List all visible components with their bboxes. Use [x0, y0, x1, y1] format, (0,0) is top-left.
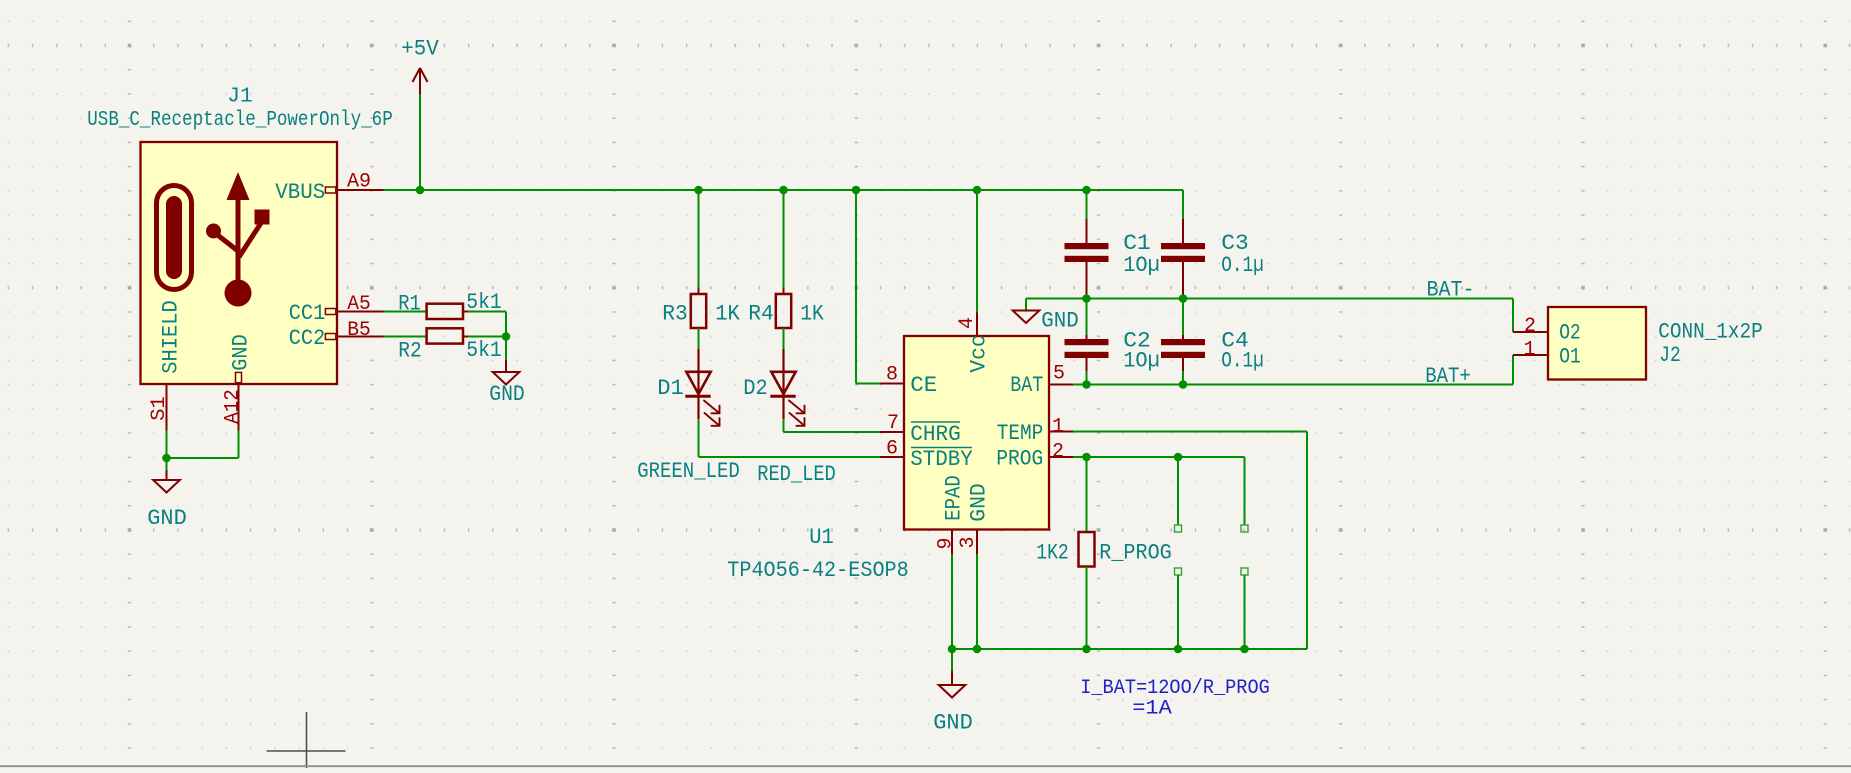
svg-text:J1: J1	[227, 85, 253, 108]
pin GND A12	[236, 372, 242, 382]
svg-text:GREEN_LED: GREEN_LED	[637, 459, 740, 484]
svg-text:RED_LED: RED_LED	[757, 462, 836, 487]
junction VBUS/R4	[779, 186, 788, 195]
svg-text:O.1µ: O.1µ	[1221, 253, 1264, 278]
junction stubA/GND bus	[1174, 645, 1183, 654]
wire VBUS to R4	[783, 190, 785, 288]
pin STDBY 6	[880, 456, 904, 458]
resistor R1 5k1	[427, 304, 463, 319]
connector J1 USB_C_Receptacle_PowerOnly_6P	[141, 142, 338, 384]
pin EPAD 9	[951, 530, 953, 555]
wire VBUS to R3	[698, 190, 700, 288]
svg-text:6: 6	[886, 438, 898, 461]
junction C1/GND	[1082, 294, 1091, 303]
svg-text:B5: B5	[347, 319, 371, 342]
svg-text:A5: A5	[347, 293, 371, 316]
resistor R4 1K	[776, 294, 791, 328]
wire VBUS bus	[384, 189, 1184, 191]
junction VBUS/R3	[694, 186, 703, 195]
svg-text:PROG: PROG	[996, 446, 1043, 471]
resistor R_PROG 1K2	[1086, 457, 1088, 532]
svg-text:CONN_1x2P: CONN_1x2P	[1658, 320, 1763, 345]
pin TEMP 1	[1049, 431, 1073, 433]
capacitor C3 0.1u	[1182, 190, 1184, 219]
svg-text:1: 1	[1052, 416, 1064, 439]
junction GND3/GND bus	[973, 645, 982, 654]
junction C3/GND	[1179, 294, 1188, 303]
wire CC2 to R2	[384, 336, 427, 338]
pin CHRG 7	[880, 431, 904, 433]
wire +5V to VBUS	[419, 94, 421, 190]
svg-text:S1: S1	[148, 396, 171, 421]
pin CE 8	[880, 383, 904, 385]
svg-text:TEMP: TEMP	[997, 421, 1044, 446]
wire GND bus bottom	[952, 648, 1307, 650]
resistor R3 1K	[691, 294, 706, 328]
wire TEMP to bottom	[1073, 431, 1307, 433]
wire GND net BAT-	[1026, 298, 1513, 300]
wire R1 to node	[468, 311, 506, 313]
svg-text:O2: O2	[1559, 320, 1581, 345]
svg-text:USB_C_Receptacle_PowerOnly_6P: USB_C_Receptacle_PowerOnly_6P	[87, 109, 393, 132]
wire BAT+ to J2 pin1	[1512, 355, 1514, 385]
wire S1 down	[166, 431, 168, 459]
svg-text:GND: GND	[933, 710, 973, 735]
led D1	[697, 349, 699, 396]
svg-text:STDBY: STDBY	[910, 447, 973, 472]
ground GND below R1/R2	[505, 337, 507, 361]
svg-text:CHRG: CHRG	[910, 422, 961, 447]
svg-text:J2: J2	[1659, 343, 1681, 368]
svg-text:D2: D2	[743, 376, 768, 401]
svg-text:1K: 1K	[715, 301, 740, 326]
junction S1/A12	[162, 454, 171, 463]
svg-text:A9: A9	[347, 171, 371, 194]
svg-text:I_BAT=12OO/R_PROG: I_BAT=12OO/R_PROG	[1080, 677, 1270, 700]
svg-text:R1: R1	[398, 291, 421, 316]
pin VBUS A9	[325, 187, 335, 193]
wire A12 to S1	[167, 457, 239, 459]
svg-text:O.1µ: O.1µ	[1221, 348, 1264, 373]
svg-text:5: 5	[1053, 363, 1065, 386]
ground GND below U1	[951, 649, 953, 671]
svg-text:GND: GND	[489, 382, 525, 407]
wire BAT- to J2 pin2	[1512, 299, 1514, 333]
no-connect stub B lower	[1241, 568, 1248, 575]
pin SHIELD S1	[166, 384, 168, 431]
svg-text:BAT-: BAT-	[1427, 277, 1475, 302]
resistor R2 5k1	[427, 328, 463, 343]
svg-text:1Oµ: 1Oµ	[1123, 348, 1160, 373]
wire VBUS to CE	[855, 190, 857, 384]
svg-text:VBUS: VBUS	[275, 180, 325, 205]
pin 1 / 01	[1513, 354, 1548, 356]
svg-text:A12: A12	[222, 389, 245, 424]
pin GND 3	[976, 530, 978, 555]
svg-text:D1: D1	[657, 376, 684, 401]
svg-text:1K: 1K	[800, 301, 824, 326]
svg-text:SHIELD: SHIELD	[159, 300, 184, 374]
junction +5V/VBUS	[416, 186, 425, 195]
svg-text:9: 9	[935, 537, 958, 549]
junction PROG/stub1	[1174, 453, 1183, 462]
wire R4 to D2	[783, 328, 785, 349]
pin BAT 5	[1049, 384, 1073, 386]
svg-text:2: 2	[1524, 315, 1536, 338]
svg-text:4: 4	[956, 317, 979, 329]
svg-text:CE: CE	[910, 373, 937, 398]
no-connect stub A lower	[1175, 568, 1182, 575]
svg-text:GND: GND	[147, 506, 187, 531]
capacitor C2 10u	[1086, 299, 1088, 336]
led D2	[782, 349, 784, 396]
junction VBUS/C1	[1082, 186, 1091, 195]
wire PROG bus	[1073, 456, 1245, 458]
pin CC1 A5	[325, 309, 335, 315]
svg-text:U1: U1	[809, 525, 834, 550]
no-connect stub B upper	[1244, 457, 1246, 525]
svg-text:3: 3	[957, 536, 980, 548]
wire R_PROG to GND bus	[1086, 567, 1088, 650]
capacitor C4 0.1u	[1182, 299, 1184, 336]
ground GND below J1	[166, 458, 168, 470]
svg-text:CC1: CC1	[289, 301, 326, 326]
wire D2 to CHRG	[783, 420, 785, 432]
USB-C plug symbol	[157, 186, 192, 290]
svg-text:GND: GND	[967, 483, 992, 522]
svg-text:+5V: +5V	[401, 36, 439, 61]
capacitor C1 10u	[1086, 190, 1088, 219]
svg-text:BAT+: BAT+	[1425, 364, 1471, 389]
no-connect stub A upper	[1177, 457, 1179, 525]
svg-text:R4: R4	[748, 301, 774, 326]
wire R1 node down	[505, 312, 507, 337]
pin PROG 2	[1049, 456, 1073, 458]
svg-text:5k1: 5k1	[466, 338, 502, 363]
svg-text:EPAD: EPAD	[942, 475, 967, 521]
junction C4/BAT	[1179, 380, 1188, 389]
wire BAT net BAT+	[1073, 384, 1513, 386]
wire EPAD down	[951, 554, 953, 649]
junction PROG/R_PROG	[1082, 453, 1091, 462]
svg-text:1: 1	[1523, 339, 1535, 362]
wire R2 to node	[468, 336, 506, 338]
wire R3 to D1	[698, 328, 700, 349]
connector J2 CONN_1x2P	[1548, 307, 1646, 380]
svg-text:CC2: CC2	[289, 326, 326, 351]
wire GND3 down	[976, 554, 978, 649]
svg-text:R_PROG: R_PROG	[1099, 540, 1172, 565]
junction R_PROG/GND bus	[1082, 645, 1091, 654]
svg-text:BAT: BAT	[1010, 373, 1043, 398]
junction VBUS/CE	[852, 186, 861, 195]
junction C2/BAT	[1082, 380, 1091, 389]
ground GND near Vcc	[1025, 299, 1027, 310]
pin 2 / 02	[1513, 331, 1548, 333]
cursor crosshair	[306, 712, 308, 768]
pin Vcc 4	[976, 313, 978, 337]
pin CC2 B5	[325, 334, 335, 340]
svg-text:Vcc: Vcc	[967, 334, 992, 373]
wire VBUS to Vcc	[976, 190, 978, 313]
svg-text:8: 8	[886, 364, 898, 387]
svg-text:=1A: =1A	[1132, 697, 1172, 720]
svg-text:TP4O56-42-ESOP8: TP4O56-42-ESOP8	[727, 558, 909, 583]
svg-text:1Oµ: 1Oµ	[1123, 253, 1160, 278]
junction stubB/GND bus	[1240, 645, 1249, 654]
svg-text:O1: O1	[1559, 344, 1581, 369]
junction R1/R2	[502, 332, 511, 341]
wire A12 down	[238, 431, 240, 459]
svg-text:2: 2	[1052, 441, 1064, 464]
wire CC1 to R1	[384, 311, 427, 313]
svg-text:GND: GND	[1041, 308, 1079, 333]
svg-text:R3: R3	[662, 301, 688, 326]
svg-text:1K2: 1K2	[1036, 540, 1069, 565]
svg-text:R2: R2	[398, 339, 422, 364]
wire D1 to STDBY	[698, 420, 700, 457]
junction VBUS/Vcc	[973, 186, 982, 195]
USB trident logo	[236, 196, 241, 292]
ic U1 TP4056-42-ESOP8	[904, 336, 1049, 530]
svg-text:7: 7	[887, 412, 899, 435]
svg-text:GND: GND	[229, 334, 254, 371]
junction EPAD/GND bus	[948, 645, 957, 654]
